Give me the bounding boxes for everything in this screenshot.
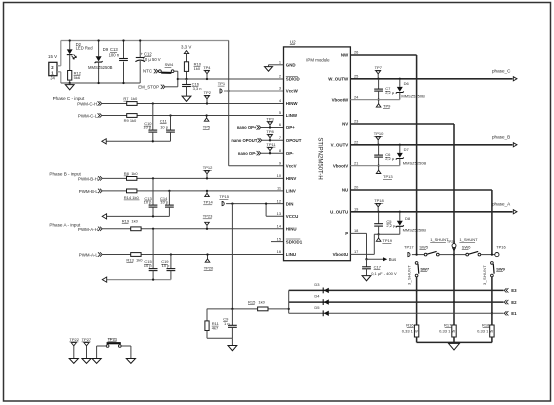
test point TP20 (207, 255, 209, 259)
capacitor C5 2.2u (378, 212, 380, 224)
svg-text:W_OUTW: W_OUTW (328, 77, 349, 82)
test point TP19 (378, 234, 380, 238)
svg-text:PWM-C-H: PWM-C-H (77, 101, 97, 106)
svg-text:phase_C: phase_C (492, 69, 511, 74)
wire NW pin 26 to shunt rail W (350, 54, 416, 56)
wire SW6 to TP16 (481, 254, 495, 256)
diode D4 (324, 299, 329, 304)
capacitor C11 10p (169, 114, 171, 116)
svg-text:MMSZ5250B: MMSZ5250B (401, 93, 425, 98)
svg-text:5: 5 (279, 110, 281, 115)
wire E summing vertical (288, 290, 290, 313)
svg-text:R17: R17 (444, 323, 452, 328)
svg-text:10 p: 10 p (144, 263, 153, 268)
svg-text:3,3 n: 3,3 n (193, 86, 202, 91)
svg-text:LINW: LINW (286, 113, 298, 118)
svg-text:SW4: SW4 (165, 62, 174, 67)
svg-text:PWM-A-H: PWM-A-H (78, 227, 98, 232)
svg-text:U2: U2 (290, 39, 296, 44)
wire TP1 to VccW pin 3 (224, 90, 284, 92)
wire shutdown node to U2 pin 2 (177, 78, 179, 80)
wire phase B filter return with left arrow (107, 215, 170, 217)
resistor R13 1k0 (131, 253, 141, 257)
resistor R17 0.33 1W shunt (452, 325, 456, 337)
svg-text:SD/OD: SD/OD (286, 77, 300, 82)
svg-text:TP1: TP1 (218, 81, 226, 86)
svg-text:STIPN2M50T-H: STIPN2M50T-H (316, 137, 322, 179)
svg-text:TP13: TP13 (383, 174, 393, 179)
wire VbootW pin 24 (350, 99, 399, 101)
wire boot line to VbootU pin 17 (374, 233, 400, 235)
capacitor C10 10p (152, 102, 154, 104)
svg-text:TP18: TP18 (374, 198, 384, 203)
wire PWM-A-L to LINU pin 16 (102, 254, 284, 256)
svg-text:12: 12 (277, 198, 281, 203)
zener diode D6 MMSZ5250B (399, 78, 401, 80)
capacitor C19 10p (170, 253, 172, 255)
svg-text:TP2: TP2 (204, 90, 212, 95)
svg-text:Phase A - input: Phase A - input (49, 223, 81, 228)
svg-text:3_SHUNT: 3_SHUNT (407, 265, 412, 285)
node Bus arrow (367, 258, 384, 260)
svg-text:TP23: TP23 (203, 214, 213, 219)
wire NV pin 23 to shunt rail V (350, 123, 454, 125)
capacitor C16 3,3n (186, 79, 188, 84)
svg-text:TP17: TP17 (404, 244, 414, 249)
svg-text:NTC: NTC (143, 69, 152, 74)
svg-text:TP8: TP8 (266, 129, 274, 134)
ground below shunt rail (449, 343, 460, 350)
connector J4 15V input (49, 62, 57, 75)
svg-text:D3: D3 (314, 282, 320, 287)
svg-text:TP27: TP27 (82, 337, 92, 342)
zener diode D9 MMSZ5250B (96, 56, 102, 61)
svg-text:1: 1 (279, 60, 281, 65)
svg-text:1_SHUNT: 1_SHUNT (459, 237, 478, 242)
wire TP21 left terminal to ground (97, 345, 107, 347)
svg-text:3,3 V: 3,3 V (181, 45, 191, 50)
svg-text:D8: D8 (405, 216, 411, 221)
wire PWM-C-H to HINW pin 4 (102, 103, 284, 105)
svg-text:D7: D7 (404, 147, 410, 152)
capacitor C7 2.2u (378, 79, 380, 89)
svg-text:NV: NV (342, 122, 348, 127)
svg-text:2,2 µ: 2,2 µ (385, 90, 395, 95)
svg-text:15 V: 15 V (48, 54, 57, 59)
ground under TP21 left (92, 359, 101, 364)
svg-text:100 n: 100 n (109, 52, 120, 57)
svg-text:R19: R19 (122, 218, 130, 223)
svg-text:R9 1k0: R9 1k0 (124, 118, 137, 123)
svg-text:nano OP-: nano OP- (238, 151, 257, 156)
svg-text:D6: D6 (404, 81, 410, 86)
wire LED to R12 (69, 55, 71, 71)
svg-text:2,2 µ: 2,2 µ (385, 156, 395, 161)
svg-text:MMSZ5250B: MMSZ5250B (403, 160, 427, 165)
svg-text:C12: C12 (144, 52, 152, 57)
svg-text:SW6: SW6 (462, 244, 471, 249)
wire net E3 (289, 289, 504, 291)
wire U_OUTU pin 19 to phase_A (350, 211, 512, 213)
svg-text:D4: D4 (314, 294, 320, 299)
svg-text:nano OP+: nano OP+ (237, 125, 257, 130)
svg-text:5k6: 5k6 (74, 75, 81, 80)
resistor R8 1k0 (127, 177, 137, 181)
svg-text:2,2 µ: 2,2 µ (386, 223, 396, 228)
svg-text:9: 9 (279, 161, 281, 166)
wire TP17 to shunt select row (412, 254, 425, 256)
svg-text:0,33 1 W: 0,33 1 W (439, 328, 455, 333)
svg-text:7: 7 (279, 135, 281, 140)
resistor R7 1k0 (127, 102, 137, 106)
ground at U2 pin 1 GND (269, 64, 284, 66)
wire PWM-B-L to LINV pin 11 (102, 190, 284, 192)
wire nano OPOUT to OPOUT pin 7 (262, 139, 284, 141)
capacitor C12 10u 50V electrolytic (139, 41, 141, 58)
svg-text:TP7: TP7 (375, 65, 383, 70)
wire PWM-B-H to HINV pin 10 (102, 177, 284, 179)
wire PWM-A-H to HINU pin 14 (102, 228, 284, 230)
ground below C17 (362, 276, 371, 281)
wire J4 pin1 to bottom rail (57, 71, 61, 73)
svg-text:OP+: OP+ (286, 125, 295, 130)
svg-text:E1: E1 (511, 311, 517, 316)
wire 15V rail down to VccV (228, 41, 230, 166)
svg-text:PWM-A-L: PWM-A-L (79, 253, 99, 258)
wire phase A filter return with left arrow (107, 279, 171, 281)
capacitor C17 0.1uF 400V (366, 259, 368, 267)
svg-text:MMSZ5250B: MMSZ5250B (403, 227, 427, 232)
svg-text:VbootU: VbootU (333, 252, 349, 257)
svg-text:R13: R13 (126, 257, 134, 262)
ground below rail (69, 83, 71, 84)
svg-text:C17: C17 (374, 265, 382, 270)
svg-text:OP-: OP- (286, 151, 294, 156)
svg-text:Bus: Bus (389, 257, 397, 262)
zener diode D8 MMSZ5250B (399, 211, 401, 213)
svg-text:1k0: 1k0 (131, 171, 138, 176)
svg-text:1k0: 1k0 (131, 218, 138, 223)
svg-text:VccW: VccW (286, 89, 299, 94)
svg-text:0,1 µF - 400 V: 0,1 µF - 400 V (371, 271, 397, 276)
svg-text:TP10: TP10 (374, 131, 384, 136)
svg-text:26: 26 (354, 50, 358, 55)
wire P pin 18 to DC bus node (350, 232, 366, 234)
svg-text:LINU: LINU (286, 252, 296, 257)
svg-text:1 n: 1 n (224, 321, 230, 326)
ground under TP22 (69, 359, 78, 364)
svg-text:4k7: 4k7 (212, 326, 219, 331)
svg-text:21: 21 (354, 160, 358, 165)
svg-text:phase_A: phase_A (492, 202, 511, 207)
svg-text:6: 6 (279, 122, 281, 127)
svg-text:C11: C11 (160, 119, 168, 124)
wire TP15 to DIN pin 12 (226, 203, 283, 205)
svg-text:J4: J4 (50, 76, 55, 81)
switch SW4 on NTC line (159, 70, 162, 73)
svg-text:11: 11 (277, 186, 281, 191)
capacitor C13 100n (123, 41, 125, 59)
svg-text:IPM module: IPM module (306, 58, 330, 63)
capacitor C14 10p (168, 190, 170, 192)
svg-text:10 p: 10 p (143, 125, 152, 130)
wire SW9 to E1 and shunt R18 (491, 277, 493, 325)
svg-text:TP21: TP21 (108, 337, 118, 342)
svg-text:SW5: SW5 (419, 244, 428, 249)
diode D5 (324, 311, 329, 316)
wire net E2 (289, 301, 504, 303)
svg-text:VbootV: VbootV (333, 163, 348, 168)
svg-text:SW9: SW9 (496, 266, 505, 271)
zener D9 branch wire (98, 41, 100, 57)
svg-text:U_OUTU: U_OUTU (330, 210, 348, 215)
svg-text:nano OPOUT: nano OPOUT (231, 138, 257, 143)
svg-text:10 µ 50 V: 10 µ 50 V (143, 57, 161, 62)
svg-text:25: 25 (354, 74, 358, 79)
test point TP14 (206, 191, 208, 193)
svg-text:0,33 1 W: 0,33 1 W (402, 328, 418, 333)
svg-text:GND: GND (286, 63, 296, 68)
wire shunt bottom rail (417, 341, 492, 343)
svg-text:E3: E3 (511, 288, 517, 293)
test point TP9 (378, 100, 380, 104)
svg-text:R18: R18 (482, 323, 490, 328)
wire SW4 to EM_STOP node (174, 70, 178, 72)
wire sense node (207, 308, 258, 310)
resistor R10 1k0 (184, 62, 188, 72)
capacitor C9 1n (231, 309, 233, 325)
svg-text:DIN: DIN (286, 201, 294, 206)
svg-text:TP5: TP5 (203, 124, 211, 129)
wire R12 to rail (69, 80, 71, 83)
svg-text:SW7: SW7 (420, 266, 429, 271)
resistor R11 4k7 (206, 309, 208, 321)
zener diode D7 MMSZ5250B (399, 144, 401, 146)
wire TP21 right terminal to ground (121, 345, 131, 347)
svg-text:18: 18 (354, 228, 358, 233)
svg-text:3_SHUNT: 3_SHUNT (482, 265, 487, 285)
svg-text:TP11: TP11 (266, 142, 276, 147)
capacitor C15 10p (152, 228, 154, 230)
connector E1 (504, 311, 508, 315)
svg-text:TP15: TP15 (219, 194, 229, 199)
svg-text:23: 23 (354, 119, 358, 124)
svg-text:VccV: VccV (286, 164, 297, 169)
ground below sense rail (231, 338, 233, 345)
svg-text:PWM-C-L: PWM-C-L (78, 113, 98, 118)
resistor R16 0.33 1W shunt (414, 325, 418, 337)
svg-text:19: 19 (354, 207, 358, 212)
svg-text:phase_B: phase_B (492, 135, 510, 140)
svg-text:VCCU: VCCU (286, 214, 298, 219)
svg-text:PWM-B-H: PWM-B-H (78, 176, 98, 181)
test point TP5 (206, 116, 208, 118)
svg-text:10 p: 10 p (144, 199, 153, 204)
svg-text:13: 13 (277, 211, 281, 216)
svg-text:2: 2 (279, 74, 281, 79)
svg-text:22: 22 (354, 140, 358, 145)
LED D2 Red (67, 49, 73, 54)
svg-text:10 p: 10 p (162, 263, 171, 268)
resistor R9 1k0 (127, 114, 137, 118)
svg-text:TP3: TP3 (266, 116, 274, 121)
svg-text:10 p: 10 p (160, 125, 169, 130)
resistor R18 0.33 1W shunt (490, 325, 494, 337)
wire DIN node vertical to sense network (231, 202, 233, 204)
svg-text:NW: NW (341, 53, 349, 58)
wire VCCU pin 13 up to DIN net (266, 215, 283, 217)
svg-text:1k0: 1k0 (136, 257, 143, 262)
svg-text:LINV: LINV (286, 189, 296, 194)
svg-text:R14 1k0: R14 1k0 (124, 195, 140, 200)
wire 15V top rail (61, 40, 229, 42)
wire NU pin 20 to shunt rail U (350, 189, 492, 191)
wire VbootV pin 21 (350, 165, 399, 167)
svg-text:8: 8 (279, 148, 281, 153)
svg-text:V_OUTV: V_OUTV (331, 143, 349, 148)
diode D3 (324, 288, 329, 293)
svg-text:10 p: 10 p (160, 199, 169, 204)
wire SW7 to E3 and shunt R16 (416, 277, 418, 325)
svg-text:TP16: TP16 (496, 244, 506, 249)
svg-text:PWM-B-L: PWM-B-L (79, 189, 99, 194)
wire W_OUTW pin 25 to phase_C (350, 78, 512, 80)
svg-text:1k0: 1k0 (258, 300, 265, 305)
svg-text:TP20: TP20 (204, 265, 214, 270)
svg-text:SD/OD1: SD/OD1 (286, 239, 303, 244)
svg-text:TP12: TP12 (203, 165, 213, 170)
svg-text:TP19: TP19 (382, 238, 392, 243)
svg-text:3: 3 (279, 86, 281, 91)
svg-text:HINV: HINV (286, 176, 297, 181)
svg-text:Phase B - input: Phase B - input (49, 171, 81, 176)
wire nano OP- to OP- pin 8 (261, 152, 284, 154)
svg-text:17: 17 (354, 249, 358, 254)
resistor R12 5k6 (68, 71, 72, 81)
ground below C16 (182, 96, 191, 101)
wire nano OP+ to OP+ pin 6 (261, 127, 284, 129)
svg-text:TP4: TP4 (203, 65, 211, 70)
ground under TP21 right (126, 359, 135, 364)
wire NV rail down to shunt R17 (453, 255, 455, 325)
ground under TP27 (82, 359, 91, 364)
svg-text:HINW: HINW (286, 101, 299, 106)
wire R10 to node (186, 71, 188, 79)
wire phase C filter return with left arrow (106, 140, 170, 142)
wire PWM-C-L to LINW pin 5 (102, 115, 284, 117)
LED D2 branch wire (69, 41, 71, 50)
svg-text:R8: R8 (124, 171, 130, 176)
svg-text:1k0: 1k0 (131, 96, 138, 101)
svg-text:R15: R15 (248, 300, 256, 305)
capacitor C6 2.2u (378, 145, 380, 155)
capacitor C13b 10p (152, 177, 154, 179)
svg-text:NU: NU (342, 188, 348, 193)
connector E2 (504, 300, 508, 304)
svg-text:R7: R7 (123, 96, 129, 101)
svg-text:VbootW: VbootW (332, 97, 349, 102)
resistor R14 1k0 (127, 189, 137, 193)
svg-text:HINU: HINU (286, 227, 297, 232)
svg-text:LED Red: LED Red (76, 46, 94, 51)
connector E3 (504, 288, 508, 292)
wire bottom rail of supply (61, 82, 140, 84)
svg-text:TP22: TP22 (69, 337, 79, 342)
resistor R15 1k0 (268, 308, 289, 310)
wire sense ground rail (207, 337, 232, 339)
svg-text:0,33 1 W: 0,33 1 W (477, 328, 493, 333)
svg-text:1k0: 1k0 (194, 66, 201, 71)
svg-text:E2: E2 (511, 300, 517, 305)
svg-text:15: 15 (277, 236, 281, 241)
svg-text:R16: R16 (406, 323, 414, 328)
test point TP13 (378, 166, 380, 171)
resistor R19 1k0 (131, 227, 141, 231)
wire J4 pin2 to 15V rail (57, 65, 61, 67)
svg-text:P: P (345, 231, 348, 236)
svg-text:EM_STOP: EM_STOP (138, 84, 159, 89)
svg-text:TP9: TP9 (383, 104, 391, 109)
wire V_OUTV pin 22 to phase_B (350, 144, 512, 146)
svg-text:MMSZ5250B: MMSZ5250B (88, 65, 113, 70)
svg-text:OPOUT: OPOUT (286, 138, 302, 143)
wire net E1 (289, 312, 504, 314)
svg-text:TP14: TP14 (203, 200, 213, 205)
svg-text:16: 16 (277, 249, 281, 254)
wire SW5 to center node (439, 254, 454, 256)
svg-text:D5: D5 (314, 305, 320, 310)
